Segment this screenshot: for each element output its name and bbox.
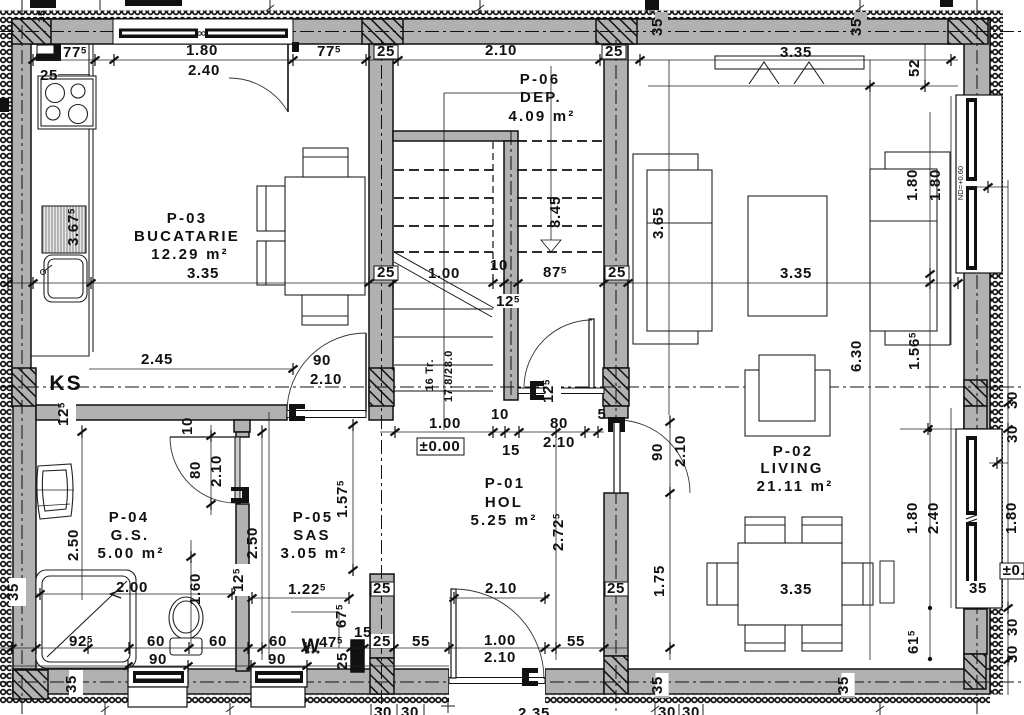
right sofa back bbox=[885, 152, 950, 345]
svg-text:2.00: 2.00 bbox=[116, 579, 148, 596]
TV wall offset line bbox=[648, 85, 958, 87]
svg-text:5.25 m²: 5.25 m² bbox=[470, 512, 537, 529]
right sofa seat bbox=[870, 169, 937, 331]
svg-text:30: 30 bbox=[374, 704, 392, 715]
right wall lower window box bbox=[956, 429, 1002, 608]
svg-text:W: W bbox=[302, 636, 321, 657]
interior wall kitchen-right / stair-left x369-393 bbox=[369, 44, 393, 420]
3.45 corridor vertical dim bbox=[550, 66, 552, 250]
svg-text:3.45: 3.45 bbox=[547, 196, 564, 228]
right wall upper window box bbox=[956, 95, 1002, 273]
right edge dim chain bbox=[1007, 180, 1009, 695]
svg-text:2.35: 2.35 bbox=[518, 705, 550, 715]
dining chair bottom-left bbox=[745, 625, 785, 651]
sink drainer hatched bbox=[42, 206, 86, 253]
bottom edge 30/30 separators bbox=[371, 704, 703, 715]
TV cabinet bbox=[715, 56, 864, 69]
dining chair top-right bbox=[802, 517, 842, 543]
corner hatch top-right bbox=[948, 19, 988, 44]
G.S. SAS dims bbox=[55, 399, 76, 429]
exterior wall bottom entry-to-pillar bbox=[545, 669, 604, 694]
corridor stair door: threshold bbox=[518, 388, 604, 394]
svg-text:LIVING: LIVING bbox=[760, 460, 823, 477]
svg-text:2.40: 2.40 bbox=[925, 502, 942, 534]
insulation stipple top band bbox=[10, 11, 1003, 20]
svg-text:2.10: 2.10 bbox=[543, 434, 575, 451]
svg-text:1.00: 1.00 bbox=[429, 415, 461, 432]
kitchen balcony door leaf bbox=[287, 44, 289, 112]
svg-text:25: 25 bbox=[377, 264, 395, 281]
svg-text:P-03: P-03 bbox=[167, 210, 208, 227]
bottom window G.S. sill bbox=[128, 687, 187, 707]
insulation stipple left band bbox=[0, 11, 12, 704]
svg-text:1.80: 1.80 bbox=[186, 42, 218, 59]
svg-text:30: 30 bbox=[658, 704, 676, 715]
dining chair right bbox=[842, 563, 873, 605]
dining chair top-left bbox=[745, 517, 785, 543]
kitchen sink bbox=[44, 255, 87, 302]
entry door: leaf bbox=[451, 589, 456, 678]
edge tick top x270 bbox=[100, 0, 864, 14]
svg-text:35: 35 bbox=[63, 675, 80, 693]
hatch pillar top wall right-mid x596-637 bbox=[596, 19, 637, 44]
stair cut break line double diagonal bbox=[394, 262, 492, 317]
svg-text:30: 30 bbox=[1004, 618, 1021, 636]
wall living/HOL upper bbox=[604, 44, 628, 368]
entry door: swing arc bbox=[454, 589, 544, 679]
hatch block living wall at axis bbox=[603, 368, 629, 406]
kitchen chair bottom bbox=[302, 295, 348, 325]
svg-text:90: 90 bbox=[649, 443, 666, 461]
svg-text:25: 25 bbox=[334, 652, 351, 670]
svg-text:15: 15 bbox=[354, 624, 372, 641]
svg-text:25: 25 bbox=[377, 43, 395, 60]
svg-text:10: 10 bbox=[491, 406, 509, 423]
left sofa back bbox=[633, 154, 698, 344]
entry door: threshold bbox=[449, 668, 545, 695]
SAS 2.50 dim line bbox=[261, 425, 263, 660]
kitchen door to HOL: swing arc bbox=[287, 333, 366, 412]
kitchen door to HOL: threshold bbox=[287, 411, 366, 418]
bottom window G.S. frame bbox=[128, 667, 188, 687]
living door + 1.75 dim line bbox=[669, 415, 671, 660]
black corner cabinet mark left of window bbox=[36, 54, 61, 61]
svg-text:25: 25 bbox=[373, 633, 391, 650]
kitchen 2.45 dim line bbox=[89, 368, 293, 370]
svg-text:1.00: 1.00 bbox=[484, 632, 516, 649]
svg-text:25: 25 bbox=[373, 580, 391, 597]
axis vertical left wall bbox=[21, 0, 23, 715]
TV antenna marks bbox=[749, 62, 779, 84]
bottom wall 35s bbox=[649, 671, 669, 698]
svg-text:15: 15 bbox=[502, 442, 520, 459]
svg-text:90: 90 bbox=[149, 651, 167, 668]
svg-text:55: 55 bbox=[567, 633, 585, 650]
svg-text:P-04: P-04 bbox=[109, 509, 150, 526]
gray block right wall below hatch bbox=[964, 406, 987, 429]
dining chair bottom-right bbox=[802, 625, 842, 651]
kitchen door to HOL: leaf open bbox=[365, 333, 367, 412]
kitchen balcony door swing arc bbox=[229, 78, 288, 112]
kitchen counter edge bbox=[31, 44, 89, 356]
edge ticks bottom bbox=[101, 698, 884, 715]
svg-text:2.45: 2.45 bbox=[141, 351, 173, 368]
svg-text:P-01: P-01 bbox=[485, 475, 526, 492]
living wall door-to-bottom bbox=[604, 493, 628, 656]
svg-text:90: 90 bbox=[268, 651, 286, 668]
corridor dim chain y432 bbox=[380, 431, 604, 433]
svg-text:21.11 m²: 21.11 m² bbox=[757, 478, 834, 495]
svg-text:KS: KS bbox=[49, 372, 82, 395]
dining table bbox=[738, 543, 842, 625]
G.S. door: black stop bbox=[231, 487, 249, 503]
right wall 35 offset line bbox=[900, 428, 963, 430]
wall thickness 35 labels in top wall bbox=[37, 10, 867, 36]
axis vertical kitchen/stair wall bbox=[381, 40, 383, 715]
svg-text:2.10: 2.10 bbox=[208, 455, 225, 487]
svg-text:1.75: 1.75 bbox=[651, 565, 668, 597]
left sofa seat bbox=[647, 170, 712, 331]
kitchen door to HOL: black stop bbox=[289, 404, 305, 421]
exterior wall bottom right of pillar bbox=[628, 669, 990, 694]
svg-text:35: 35 bbox=[37, 10, 48, 23]
svg-text:12.29 m²: 12.29 m² bbox=[151, 246, 229, 263]
solid treads lower flight bbox=[394, 309, 493, 391]
svg-text:35: 35 bbox=[969, 580, 987, 597]
kitchen window sash right bbox=[205, 29, 288, 39]
G.S. door: leaf open line bbox=[170, 436, 236, 438]
G.S. door: swing arc bbox=[170, 437, 236, 503]
mid dim chain line bbox=[0, 282, 958, 284]
axis horizontal KS / mid bbox=[0, 386, 1024, 388]
svg-text:G.S.: G.S. bbox=[111, 527, 150, 544]
hatch block right wall lower bbox=[964, 654, 986, 689]
gray block right wall above lower hatch bbox=[964, 609, 987, 654]
exterior wall left lower bbox=[13, 405, 36, 695]
svg-text:2.10: 2.10 bbox=[310, 371, 342, 388]
svg-text:BUCATARIE: BUCATARIE bbox=[134, 228, 240, 245]
svg-text:35: 35 bbox=[848, 18, 865, 36]
svg-text:3.35: 3.35 bbox=[780, 265, 812, 282]
svg-text:±0.: ±0. bbox=[1003, 562, 1024, 579]
svg-text:30: 30 bbox=[682, 704, 700, 715]
svg-text:SAS: SAS bbox=[293, 527, 330, 544]
hatch block left wall at KS bbox=[12, 368, 36, 406]
wall stair right vertical bbox=[504, 141, 518, 400]
svg-text:60: 60 bbox=[209, 633, 227, 650]
top dim chain line bbox=[30, 59, 958, 61]
svg-text:2.10: 2.10 bbox=[485, 42, 517, 59]
svg-text:10: 10 bbox=[490, 257, 508, 274]
svg-text:2.50: 2.50 bbox=[65, 529, 82, 561]
svg-text:ND=+0.60: ND=+0.60 bbox=[956, 166, 965, 200]
right wall 52 tick line bbox=[968, 186, 1008, 188]
svg-text:52: 52 bbox=[906, 59, 923, 77]
kitchen table bbox=[285, 177, 365, 295]
svg-text:5: 5 bbox=[597, 406, 606, 423]
bottom dim chain row B y666 bbox=[0, 665, 449, 667]
black wall stub SAS bottom 15cm bbox=[351, 640, 364, 672]
corridor stair door: leaf bbox=[589, 319, 594, 388]
svg-text:1.80: 1.80 bbox=[904, 502, 921, 534]
kitchen faucet bbox=[41, 270, 46, 275]
armchair outer bbox=[745, 370, 830, 436]
svg-text:10: 10 bbox=[179, 417, 196, 435]
DEP leader line bbox=[444, 92, 552, 94]
bottom window SAS frame bbox=[251, 667, 307, 687]
axis vertical right wall bbox=[976, 0, 978, 715]
svg-text:2.10: 2.10 bbox=[484, 649, 516, 666]
G.S. washbasin bbox=[37, 464, 73, 519]
svg-text:35: 35 bbox=[649, 676, 666, 694]
svg-text:60: 60 bbox=[147, 633, 165, 650]
kitchen top window opening bbox=[113, 19, 293, 44]
wall G.S./SAS vertical bbox=[236, 432, 249, 437]
svg-text:30: 30 bbox=[1004, 425, 1021, 443]
living vertical ext line x669 upper bbox=[668, 60, 670, 415]
SAS 1.22 dim line bbox=[250, 597, 351, 599]
svg-text:P-06: P-06 bbox=[520, 71, 561, 88]
SAS window ext line bbox=[268, 412, 270, 660]
svg-text:3.65: 3.65 bbox=[650, 207, 667, 239]
dashed treads upper flight right corridor bbox=[517, 141, 603, 252]
toilet 1.60 dim line bbox=[190, 540, 192, 648]
svg-text:P-02: P-02 bbox=[773, 443, 814, 460]
kitchen window sash left bbox=[119, 29, 198, 39]
svg-text:HOL: HOL bbox=[485, 494, 523, 511]
entry door: black stop bbox=[522, 668, 538, 686]
exterior wall top bbox=[12, 19, 990, 44]
svg-text:80: 80 bbox=[550, 415, 568, 432]
svg-text:1.80: 1.80 bbox=[1003, 502, 1020, 534]
exterior wall left upper bbox=[12, 19, 31, 407]
dining chair left bbox=[707, 563, 738, 605]
svg-text:25: 25 bbox=[605, 43, 623, 60]
kitchen chair left lower bbox=[257, 241, 285, 285]
svg-text:25: 25 bbox=[608, 264, 626, 281]
SAS 67.5 bracket bbox=[291, 612, 339, 648]
G.S. toilet bbox=[169, 597, 203, 639]
svg-text:17.8/28.0: 17.8/28.0 bbox=[443, 350, 455, 402]
stair walk line vertical bbox=[443, 93, 445, 430]
wall kitchen/G.S. horizontal bbox=[36, 405, 287, 420]
kitchen chair top bbox=[303, 148, 348, 177]
washing machine marker dots bbox=[307, 651, 309, 653]
G.S. 2.00 dim bbox=[36, 593, 236, 595]
svg-text:30: 30 bbox=[1004, 391, 1021, 409]
wall stub below kitchen wall at G.S. door bbox=[234, 420, 250, 432]
living wall below hatch to door bbox=[604, 406, 628, 418]
hatch pillar top wall left-mid x362-403 bbox=[362, 19, 403, 44]
bottom window SAS sill bbox=[251, 687, 305, 707]
svg-text:3.35: 3.35 bbox=[187, 265, 219, 282]
axis vertical stair right wall bbox=[510, 131, 512, 400]
svg-text:3.05 m²: 3.05 m² bbox=[280, 545, 347, 562]
svg-text:90: 90 bbox=[313, 352, 331, 369]
right window dim lines bbox=[929, 430, 931, 660]
insulation stipple bottom band left bbox=[11, 695, 449, 704]
HOL 2.72 dim line bbox=[555, 425, 557, 660]
radiator right wall bbox=[880, 561, 894, 603]
hatch block living wall bottom bbox=[604, 656, 628, 694]
kitchen chair left upper bbox=[257, 186, 285, 231]
svg-text:25: 25 bbox=[40, 67, 58, 84]
svg-text:35: 35 bbox=[5, 583, 22, 601]
svg-text:16 Tr.: 16 Tr. bbox=[424, 359, 436, 391]
svg-text:25: 25 bbox=[607, 580, 625, 597]
G.S. door: leaf closed in opening bbox=[235, 437, 240, 503]
axis vertical living wall bbox=[615, 40, 617, 715]
pillar between SAS and HOL hatch bottom bbox=[370, 658, 394, 694]
right wall upper window glazing bbox=[966, 98, 977, 181]
hatch block right wall upper bbox=[964, 380, 987, 406]
living door: black stop top bbox=[608, 417, 625, 432]
svg-text:3.35: 3.35 bbox=[780, 581, 812, 598]
svg-text:1.80: 1.80 bbox=[904, 169, 921, 201]
armchair seat bbox=[759, 355, 815, 421]
boxed 25 top left bbox=[374, 43, 398, 60]
svg-text:35: 35 bbox=[835, 676, 852, 694]
right wall lower window glazing bbox=[966, 436, 977, 515]
svg-text:55: 55 bbox=[412, 633, 430, 650]
svg-text:35: 35 bbox=[649, 18, 666, 36]
bottom dim chain row A y648 bbox=[0, 647, 628, 649]
svg-text:30: 30 bbox=[401, 704, 419, 715]
black jamb mark right of window bbox=[292, 42, 299, 52]
hatch block on stair-left wall at axis bbox=[369, 368, 394, 406]
insulation stipple right band bbox=[990, 11, 1003, 695]
sofa 1.80 dim lines bbox=[929, 112, 931, 430]
svg-text:6.30: 6.30 bbox=[848, 340, 865, 372]
G.S. 2.50 dim line bbox=[81, 425, 83, 600]
svg-text:80: 80 bbox=[187, 461, 204, 479]
dashed treads upper flight left of wall bbox=[394, 142, 493, 283]
axis horizontal bottom wall bbox=[0, 681, 1024, 683]
svg-text:DEP.: DEP. bbox=[520, 89, 562, 106]
svg-text:P-05: P-05 bbox=[293, 509, 334, 526]
SAS 1.57 dim line bbox=[352, 420, 354, 574]
svg-text:1.80: 1.80 bbox=[927, 169, 944, 201]
living 6.30 dim line bbox=[869, 60, 871, 660]
svg-text:2.10: 2.10 bbox=[485, 580, 517, 597]
corner hatch bottom-left bbox=[13, 670, 48, 699]
corridor stair door: black stop bbox=[530, 381, 544, 400]
insulation stipple bottom band right bbox=[545, 695, 990, 704]
living door: swing arc bbox=[617, 420, 690, 493]
svg-text:4.09 m²: 4.09 m² bbox=[508, 108, 575, 125]
wall stair top (DEP) bbox=[393, 131, 518, 141]
G.S. door vertical dim bbox=[210, 425, 212, 515]
stove burners bbox=[46, 84, 65, 103]
svg-text:±0.00: ±0.00 bbox=[420, 438, 461, 455]
svg-text:60: 60 bbox=[269, 633, 287, 650]
exterior wall right bbox=[964, 19, 990, 690]
svg-text:1.60: 1.60 bbox=[187, 573, 204, 605]
cut-off dim boxes top edge bbox=[0, 0, 953, 112]
svg-text:2.10: 2.10 bbox=[672, 435, 689, 467]
svg-text:5.00 m²: 5.00 m² bbox=[97, 545, 164, 562]
axis horizontal top wall bbox=[0, 31, 1024, 33]
entry 2.10 dim line bbox=[449, 597, 549, 599]
svg-text:30: 30 bbox=[1004, 645, 1021, 663]
exterior wall bottom left of entry bbox=[13, 669, 449, 694]
svg-text:3.35: 3.35 bbox=[780, 44, 812, 61]
living door: leaf bbox=[614, 418, 620, 493]
corner hatch top-left bbox=[12, 19, 51, 44]
pillar between SAS and HOL gray bbox=[370, 574, 394, 658]
G.S. shower bbox=[36, 570, 136, 668]
corridor stair door: swing arc bbox=[524, 320, 592, 388]
stove bbox=[38, 76, 96, 129]
svg-text:2.40: 2.40 bbox=[188, 62, 220, 79]
coffee table bbox=[748, 196, 827, 316]
svg-text:1.00: 1.00 bbox=[428, 265, 460, 282]
svg-text:2.50: 2.50 bbox=[244, 527, 261, 559]
